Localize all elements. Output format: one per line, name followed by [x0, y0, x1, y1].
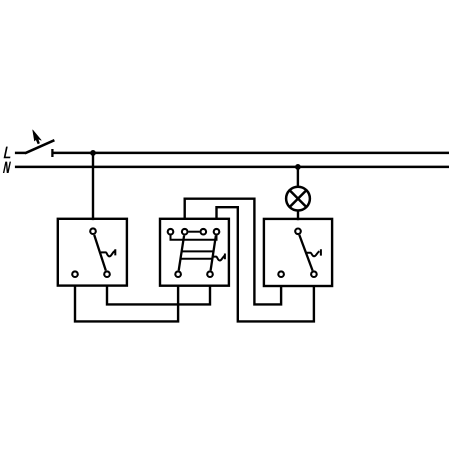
- switch S3 top terminal: [295, 229, 301, 235]
- wire L rail: [52, 152, 449, 155]
- supply switch fixed contact tick: [51, 149, 53, 157]
- wire N rail down to lamp: [297, 167, 299, 187]
- switch S3 actuator symbol: [306, 249, 321, 256]
- mouse cursor: [33, 130, 42, 144]
- switch S1 bottom-right terminal: [104, 271, 110, 277]
- switch S2 top terminal 2: [182, 229, 188, 235]
- switch S2 link terminals 2-3: [189, 231, 200, 233]
- switch S2 actuator symbol: [212, 254, 225, 261]
- net label N: [3, 162, 11, 173]
- wire S1 bottom-left to S2 bottom-left (lower run): [75, 285, 178, 321]
- switch S2 top terminal 3: [201, 229, 207, 235]
- switch S2 bottom-right terminal: [207, 271, 213, 277]
- switch S1 top terminal: [90, 228, 96, 234]
- wire L rail down to switch S1: [92, 153, 94, 220]
- wire lamp to switch S3: [297, 211, 299, 221]
- junction node on N rail: [295, 164, 301, 170]
- switch S3 bottom-left terminal: [278, 271, 284, 277]
- wire S1 bottom-right to S2 bottom-right (upper run): [107, 285, 210, 304]
- switch S2 lever left: [179, 236, 184, 271]
- switch S1 enclosure box: [58, 219, 127, 286]
- switch S2 coupling rung lower: [181, 258, 213, 260]
- switch S1 actuator symbol: [101, 249, 116, 256]
- lamp E1: [286, 187, 310, 211]
- switch S2 top terminal 1: [168, 229, 174, 235]
- switch S3 enclosure box: [264, 219, 332, 286]
- switch S2 bar linking terminals 1-4: [171, 235, 217, 240]
- switch S2 (intermediate) enclosure box: [160, 219, 229, 286]
- switch S3 lever: [299, 235, 312, 271]
- switch S2 coupling rung upper: [182, 250, 214, 252]
- wire S2 terminal 4 over the top and down to S3 bottom-right: [217, 207, 314, 321]
- wire N rail: [15, 166, 449, 169]
- net label L: [4, 147, 11, 159]
- junction node on L rail: [90, 150, 96, 156]
- switch S2 bottom-left terminal: [175, 271, 181, 277]
- wire S2 terminal 2 over the top and down to S3 bottom-left: [185, 199, 281, 305]
- supply switch blade (open) on L: [25, 140, 55, 153]
- switch S2 lever right: [211, 236, 216, 271]
- switch S1 bottom-left terminal: [72, 271, 78, 277]
- switch S2 top terminal 4: [214, 229, 220, 235]
- switch S3 bottom-right terminal: [311, 271, 317, 277]
- switch S1 lever: [94, 235, 106, 271]
- wire L stub from label to supply switch hinge: [15, 152, 26, 155]
